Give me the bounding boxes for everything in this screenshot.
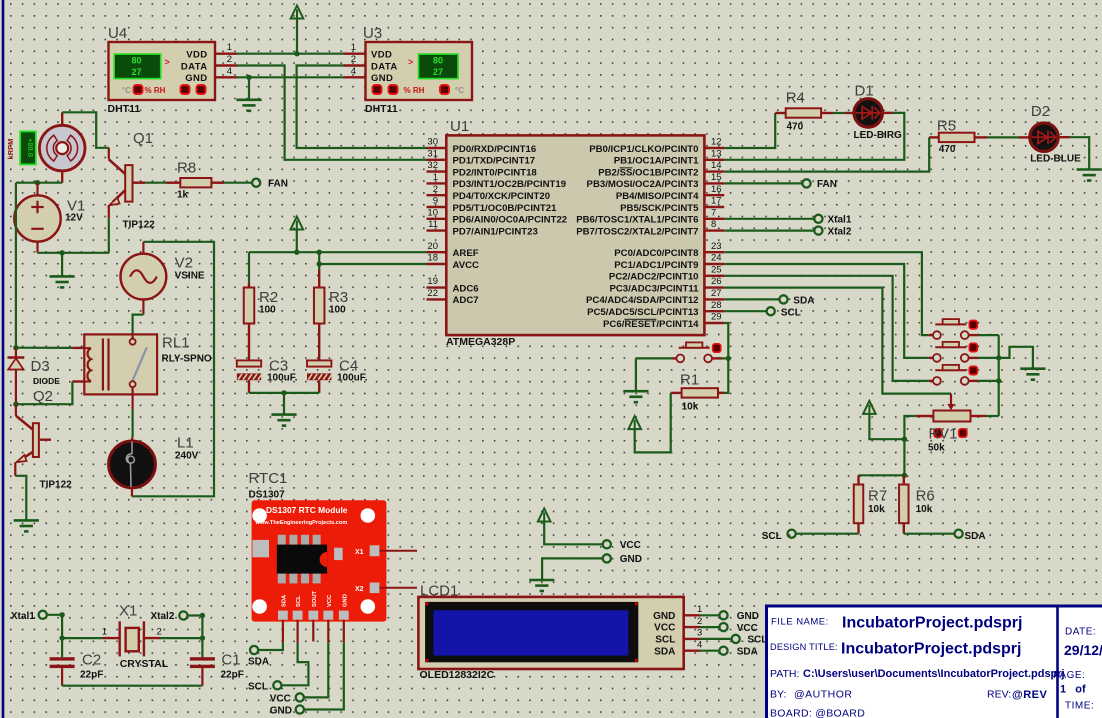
wire button left to ground xyxy=(636,357,672,359)
svg-text:SDA: SDA xyxy=(654,646,675,657)
D1 cathode lead xyxy=(882,112,893,114)
svg-text:SDA: SDA xyxy=(793,296,814,307)
svg-text:240V: 240V xyxy=(175,450,199,461)
wire Xtal2 down to C1 xyxy=(188,616,203,658)
wire LCD SDA xyxy=(700,650,719,652)
svg-text:24: 24 xyxy=(711,253,722,264)
L1 top lead xyxy=(131,437,134,441)
svg-text:U1: U1 xyxy=(450,118,469,135)
svg-text:VDD: VDD xyxy=(186,50,207,61)
svg-text:R4: R4 xyxy=(786,90,805,107)
svg-text:RTC1: RTC1 xyxy=(249,470,288,487)
svg-text:7: 7 xyxy=(711,207,716,218)
junction button2 xyxy=(996,355,1001,360)
svg-text:AREF: AREF xyxy=(453,248,479,259)
svg-text:°C: °C xyxy=(122,86,131,95)
svg-text:4: 4 xyxy=(697,640,702,651)
svg-text:1k: 1k xyxy=(177,190,189,201)
svg-text:VCC: VCC xyxy=(620,540,641,551)
svg-text:470: 470 xyxy=(939,144,956,155)
power terminal (VCC pair) xyxy=(538,509,551,522)
svg-text:DATE:: DATE: xyxy=(1065,627,1096,638)
svg-text:IncubatorProject.pdsprj: IncubatorProject.pdsprj xyxy=(842,615,1022,632)
L1 bottom lead xyxy=(131,488,133,497)
svg-text:OLED12832I2C: OLED12832I2C xyxy=(420,669,495,681)
wire VDD U4-U3 xyxy=(237,53,344,55)
wire PB0 to R4 xyxy=(724,113,775,148)
wire RV1 left down xyxy=(904,416,916,439)
wire down to R6/R7 xyxy=(903,439,905,475)
D2 anode lead xyxy=(1019,136,1030,138)
wire AREF to R2 xyxy=(248,252,250,283)
svg-text:100uF.: 100uF. xyxy=(267,373,298,384)
junction C2/crystal xyxy=(59,635,64,640)
marker (RV1 a) xyxy=(934,429,942,437)
U1 pin 12 PB0 xyxy=(704,147,724,149)
svg-text:1: 1 xyxy=(227,42,232,53)
svg-text:PB0/ICP1/CLKO/PCINT0: PB0/ICP1/CLKO/PCINT0 xyxy=(589,144,698,155)
terminal SDA (chip) xyxy=(779,295,787,303)
power terminal VCC top xyxy=(291,6,304,19)
svg-text:25: 25 xyxy=(711,264,722,275)
terminal FAN (left) xyxy=(252,179,260,187)
svg-text:kRPM: kRPM xyxy=(6,139,15,160)
svg-text:CRYSTAL: CRYSTAL xyxy=(120,658,169,670)
wire AVCC xyxy=(319,263,426,265)
svg-text:PB3/MOSI/OC2A/PCINT3: PB3/MOSI/OC2A/PCINT3 xyxy=(587,179,699,190)
svg-text:PB4/MISO/PCINT4: PB4/MISO/PCINT4 xyxy=(616,191,699,202)
svg-text:PATH:: PATH: xyxy=(770,668,799,680)
svg-text:SCL: SCL xyxy=(747,635,767,646)
svg-text:GND: GND xyxy=(620,554,642,565)
push button 3 xyxy=(929,365,979,385)
junction GND xyxy=(246,75,251,80)
wire V2+ around to L1 xyxy=(132,242,214,496)
terminal Xtal2 (crystal) xyxy=(179,611,187,619)
svg-text:D1: D1 xyxy=(855,83,874,100)
U1 pin 28 PC5 xyxy=(704,310,724,312)
svg-text:10k: 10k xyxy=(916,504,933,515)
svg-text:R5: R5 xyxy=(937,117,956,134)
ground (C3/C4) xyxy=(271,415,296,426)
svg-text:SDA: SDA xyxy=(248,656,269,667)
wire button to reset net xyxy=(718,357,729,359)
svg-text:PB6/TOSC1/XTAL1/PCINT6: PB6/TOSC1/XTAL1/PCINT6 xyxy=(576,215,698,226)
C2 bottom lead xyxy=(61,668,63,686)
lamp L1 240V xyxy=(109,441,156,488)
svg-text:100uF.: 100uF. xyxy=(337,373,368,384)
svg-text:12: 12 xyxy=(711,137,722,148)
wire C2-C1 bottom rail xyxy=(62,685,202,687)
U3 pin 2 DATA xyxy=(344,64,366,66)
wire V1- rail xyxy=(38,252,110,254)
wire D1 to PB1 xyxy=(724,113,904,160)
R5 leads xyxy=(929,136,939,138)
svg-text:3: 3 xyxy=(697,628,702,639)
U1 pin 2 PD4 xyxy=(427,194,447,196)
wire PC2 to button3 xyxy=(724,276,929,381)
title block xyxy=(767,606,1102,718)
svg-text:BY:: BY: xyxy=(770,689,786,701)
U4 pin 1 VDD xyxy=(215,53,237,55)
svg-text:% RH: % RH xyxy=(145,86,166,95)
marker (reset button) xyxy=(713,344,721,352)
U3 pin 1 VDD xyxy=(344,53,366,55)
U4 pin 2 DATA xyxy=(215,64,237,66)
wire C3-C4 to ground xyxy=(249,392,319,394)
sheet border xyxy=(2,0,5,718)
wire LCD VCC xyxy=(700,626,719,628)
U1 pin 25 PC2 xyxy=(704,275,724,277)
svg-text:DS1307: DS1307 xyxy=(249,490,286,501)
wire PC5 to SCL terminal xyxy=(724,310,766,312)
ground (Q2) xyxy=(14,520,39,531)
wire to relay coil+ xyxy=(16,347,73,349)
wire down to ground xyxy=(635,358,637,391)
push button 1 xyxy=(929,319,979,339)
junction relay coil top / D3 xyxy=(13,345,18,350)
svg-text:TIP122: TIP122 xyxy=(123,219,156,230)
svg-text:SDA: SDA xyxy=(281,594,287,607)
svg-text:ADC7: ADC7 xyxy=(453,295,479,306)
wire GND terminal xyxy=(542,558,603,580)
svg-text:D2: D2 xyxy=(1031,103,1050,120)
relay RL1 RLY-SPNO xyxy=(84,334,157,394)
terminal Xtal2 (right) xyxy=(814,227,822,235)
svg-text:C2: C2 xyxy=(82,652,101,669)
svg-text:GND: GND xyxy=(653,611,675,622)
svg-text:1: 1 xyxy=(102,627,107,638)
U1 pin 29 PC6 xyxy=(704,322,724,324)
svg-text:REV:: REV: xyxy=(987,689,1011,701)
terminal SCL (pull-up) xyxy=(788,530,796,538)
motor bottom lead xyxy=(61,171,63,183)
RTC1 DS1307 module board xyxy=(252,500,387,621)
U1 pin 24 PC1 xyxy=(704,263,724,265)
svg-text:27: 27 xyxy=(711,288,722,299)
svg-text:28: 28 xyxy=(711,300,722,311)
svg-text:PD0/RXD/PCINT16: PD0/RXD/PCINT16 xyxy=(453,144,537,155)
svg-text:DHT11: DHT11 xyxy=(365,103,398,115)
diode D3 xyxy=(8,348,25,405)
wire Q1 emitter down xyxy=(108,219,110,253)
wire RTC SDA xyxy=(258,642,283,650)
svg-text:>: > xyxy=(408,57,413,67)
terminal GND xyxy=(603,554,611,562)
wire D2 to ground xyxy=(1070,137,1089,169)
U1 pin 30 PD0 xyxy=(427,147,447,149)
svg-text:R2: R2 xyxy=(259,289,278,306)
svg-text:SCL: SCL xyxy=(296,595,302,607)
svg-text:80: 80 xyxy=(433,55,443,65)
relay coil bottom lead xyxy=(72,380,84,382)
svg-text:22: 22 xyxy=(427,288,438,299)
wire PB6 to Xtal1 xyxy=(724,218,814,220)
wire PC0 to button1 xyxy=(724,252,929,335)
U1 pin 18 AVCC xyxy=(427,263,447,265)
resistor R3 leads xyxy=(318,270,320,288)
svg-text:PC6/RESET/PCINT14: PC6/RESET/PCINT14 xyxy=(603,319,699,330)
U1 pin 13 PB1 xyxy=(704,159,724,161)
svg-text:Q2: Q2 xyxy=(33,388,53,405)
svg-text:RL1: RL1 xyxy=(162,335,190,352)
svg-text:C:\Users\user\Documents\Incuba: C:\Users\user\Documents\IncubatorProject… xyxy=(803,668,1065,680)
svg-text:18: 18 xyxy=(427,253,438,264)
U1 pin 15 PB3 xyxy=(704,182,724,184)
wire PC1 to button2 xyxy=(724,264,929,358)
push button 2 xyxy=(929,342,979,362)
wire relay NO to L1 xyxy=(132,410,134,438)
wire R5 to D2 xyxy=(988,136,1019,138)
U1 pin 32 PD2 xyxy=(427,170,447,172)
wire PB7 to Xtal2 xyxy=(724,230,814,232)
wire crystal pin2 to C1 xyxy=(160,637,202,639)
svg-text:GND: GND xyxy=(371,73,393,84)
resistor R2 xyxy=(244,288,255,324)
svg-text:PD7/AIN1/PCINT23: PD7/AIN1/PCINT23 xyxy=(453,226,538,237)
U1 pin 23 PC0 xyxy=(704,251,724,253)
RV1 leads xyxy=(916,415,934,417)
junction RV1/power xyxy=(902,437,907,442)
terminal SCL (LCD) xyxy=(732,635,740,643)
motor top lead xyxy=(61,112,63,125)
U1 pin 31 PD1 xyxy=(427,159,447,161)
terminal VCC xyxy=(603,540,611,548)
svg-text:U3: U3 xyxy=(363,25,382,42)
wire R6 to SDA terminal xyxy=(904,533,955,535)
wire V2- to relay switch xyxy=(133,315,144,335)
wire power to AREF rail xyxy=(296,230,298,253)
wire U4 DATA to U1 PD1 xyxy=(237,66,427,160)
svg-text:50k: 50k xyxy=(928,443,945,454)
svg-text:20: 20 xyxy=(427,241,438,252)
RTC pin leads xyxy=(282,620,284,642)
svg-text:TIME:: TIME: xyxy=(1065,701,1094,712)
svg-text:ATMEGA328P: ATMEGA328P xyxy=(446,336,515,348)
svg-text:31: 31 xyxy=(427,148,438,159)
svg-text:DHT11: DHT11 xyxy=(108,103,141,115)
wire R4 to D1 xyxy=(833,112,845,114)
junction AREF/R3 xyxy=(317,250,322,255)
svg-text:14: 14 xyxy=(711,160,722,171)
svg-text:PC4/ADC4/SDA/PCINT12: PC4/ADC4/SDA/PCINT12 xyxy=(586,295,699,306)
ground (V1) xyxy=(50,276,75,287)
ground (D2) xyxy=(1077,170,1102,181)
svg-text:16: 16 xyxy=(711,184,722,195)
svg-text:@AUTHOR: @AUTHOR xyxy=(794,689,853,701)
U1 pin 11 PD7 xyxy=(427,229,447,231)
svg-text:PD3/INT1/OC2B/PCINT19: PD3/INT1/OC2B/PCINT19 xyxy=(453,179,567,190)
source V1 12V xyxy=(14,183,60,253)
svg-text:VCC: VCC xyxy=(327,594,333,607)
svg-text:23: 23 xyxy=(711,241,722,252)
svg-text:GND: GND xyxy=(737,611,759,622)
resistor R8 xyxy=(180,178,211,187)
power terminal (RV1) xyxy=(863,401,876,414)
U1 pin 27 PC4 xyxy=(704,298,724,300)
svg-text:FAN: FAN xyxy=(268,178,288,189)
wire R8 to FAN terminal xyxy=(224,182,252,184)
svg-text:X1: X1 xyxy=(119,603,137,620)
junction Xtal2 xyxy=(200,613,205,618)
wire button2 to common xyxy=(978,357,998,359)
wire power to RV1 net xyxy=(869,414,904,439)
svg-text:27: 27 xyxy=(131,67,141,77)
svg-text:ADC6: ADC6 xyxy=(453,283,479,294)
svg-text:VCC: VCC xyxy=(270,694,291,705)
junction ground rail V1 xyxy=(59,250,64,255)
svg-text:Xtal1: Xtal1 xyxy=(11,611,35,622)
svg-text:17: 17 xyxy=(711,196,722,207)
wire AREF rail xyxy=(249,251,427,253)
wire PB2 to R5 xyxy=(724,137,929,171)
wire RTC VCC xyxy=(304,642,328,697)
U1 pin 16 PB4 xyxy=(704,194,724,196)
wire to ground xyxy=(61,253,63,277)
svg-text:29: 29 xyxy=(711,312,722,323)
resistor R6 xyxy=(899,485,909,524)
wire GND U4-U3 xyxy=(237,76,344,78)
wire PB3 to FAN xyxy=(724,182,802,184)
ground (DHT11) xyxy=(236,100,261,111)
svg-text:AVCC: AVCC xyxy=(453,260,480,271)
potentiometer RV1 50k xyxy=(933,411,970,422)
svg-text:1: 1 xyxy=(697,604,702,615)
svg-text:DATA: DATA xyxy=(371,61,398,72)
svg-text:LED-BIRG: LED-BIRG xyxy=(854,130,903,141)
terminal SDA (RTC) xyxy=(250,646,258,654)
svg-text:19: 19 xyxy=(427,276,438,287)
crystal X1 xyxy=(120,621,144,656)
svg-text:VCC: VCC xyxy=(737,623,758,634)
svg-text:100: 100 xyxy=(259,305,276,316)
svg-text:SOUT: SOUT xyxy=(312,590,318,607)
U1 pin 14 PB2 xyxy=(704,170,724,172)
R1 leads xyxy=(671,392,682,394)
svg-text:10k: 10k xyxy=(868,504,885,515)
wire to C2 xyxy=(61,638,63,657)
marker (button 3) xyxy=(969,366,977,374)
svg-text:R1: R1 xyxy=(680,372,699,389)
svg-text:RLY-SPNO: RLY-SPNO xyxy=(162,354,212,365)
junction crystal/C1 xyxy=(200,635,205,640)
wire V1+ down to relay coil xyxy=(15,183,17,348)
C1 bottom lead xyxy=(201,668,203,686)
svg-text:1: 1 xyxy=(433,172,438,183)
resistor R1 xyxy=(682,388,718,397)
power terminal (R1 pull-up) xyxy=(628,416,641,429)
svg-text:PD6/AIN0/OC0A/PCINT22: PD6/AIN0/OC0A/PCINT22 xyxy=(453,215,568,226)
resistor R3 xyxy=(314,288,325,324)
svg-text:VCC: VCC xyxy=(654,623,675,634)
svg-text:PD4/T0/XCK/PCINT20: PD4/T0/XCK/PCINT20 xyxy=(453,191,551,202)
svg-text:R3: R3 xyxy=(329,289,348,306)
svg-text:D3: D3 xyxy=(31,358,50,375)
push button (reset) xyxy=(672,342,722,362)
svg-text:GND: GND xyxy=(342,594,348,607)
svg-text:PC3/ADC3/PCINT11: PC3/ADC3/PCINT11 xyxy=(609,283,699,294)
U1 pin 19 ADC6 xyxy=(427,286,447,288)
svg-text:BOARD: @BOARD: BOARD: @BOARD xyxy=(770,708,865,718)
junction D3/Q2 xyxy=(13,402,18,407)
wire VCC terminal xyxy=(544,522,603,545)
svg-text:29/12/2: 29/12/2 xyxy=(1064,642,1102,658)
R4 leads xyxy=(775,112,786,114)
U1 pin 26 PC3 xyxy=(704,286,724,288)
svg-text:GND: GND xyxy=(270,706,292,717)
D1 anode lead xyxy=(845,112,855,114)
wire V1+/motor rail xyxy=(16,182,62,184)
svg-text:15: 15 xyxy=(711,172,722,183)
wire R7 to SCL terminal xyxy=(796,533,859,535)
wire button1 to common xyxy=(978,334,998,336)
D2 cathode lead xyxy=(1058,136,1070,138)
svg-text:FILE NAME:: FILE NAME: xyxy=(771,617,829,628)
svg-text:X2: X2 xyxy=(355,586,364,593)
terminal SDA (pull-up) xyxy=(955,530,963,538)
wire to crystal pin1 xyxy=(62,637,103,639)
svg-text:Xtal2: Xtal2 xyxy=(151,611,175,622)
svg-text:1: 1 xyxy=(351,42,356,53)
svg-text:80: 80 xyxy=(131,55,141,65)
junction reset button/R1 xyxy=(726,356,731,361)
svg-text:PB1/OC1A/PCINT1: PB1/OC1A/PCINT1 xyxy=(614,156,699,167)
resistor R5 xyxy=(939,133,975,142)
svg-text:1 of: 1 of xyxy=(1060,684,1086,696)
svg-text:V2: V2 xyxy=(175,255,193,272)
wire RV1 right to buttons common xyxy=(986,415,999,417)
svg-text:PC1/ADC1/PCINT9: PC1/ADC1/PCINT9 xyxy=(614,260,698,271)
svg-text:PB5/SCK/PCINT5: PB5/SCK/PCINT5 xyxy=(620,203,699,214)
svg-text:>: > xyxy=(165,57,170,67)
svg-text:2: 2 xyxy=(433,184,438,195)
svg-text:PB2/SS/OC1B/PCINT2: PB2/SS/OC1B/PCINT2 xyxy=(598,167,698,178)
U1 pin 10 PD6 xyxy=(427,218,447,220)
svg-text:SDA: SDA xyxy=(737,646,758,657)
svg-text:4: 4 xyxy=(227,66,232,77)
U1 pin 9 PD5 xyxy=(427,206,447,208)
capacitor C4 xyxy=(307,360,332,380)
U3 pin 4 GND xyxy=(344,76,366,78)
svg-text:SDA: SDA xyxy=(965,531,986,542)
wire Q1 base to R8 xyxy=(145,182,166,184)
R7 leads xyxy=(857,475,859,484)
relay switch bottom lead xyxy=(132,387,134,409)
svg-text:PD5/T1/OC0B/PCINT21: PD5/T1/OC0B/PCINT21 xyxy=(453,203,558,214)
svg-text:DESIGN TITLE:: DESIGN TITLE: xyxy=(770,642,838,652)
U4 pin 4 GND xyxy=(215,76,237,78)
wire power to VDD net xyxy=(296,18,298,54)
wire RTC SCL xyxy=(282,643,309,686)
svg-text:11: 11 xyxy=(428,219,438,230)
svg-text:470: 470 xyxy=(787,121,804,132)
svg-text:FAN: FAN xyxy=(817,179,837,190)
svg-text:°C: °C xyxy=(455,86,464,95)
svg-text:12V: 12V xyxy=(65,213,83,224)
svg-text:2: 2 xyxy=(227,54,232,65)
wire Xtal1 to crystal xyxy=(47,615,62,638)
wire LCD GND xyxy=(700,614,719,616)
svg-text:PC0/ADC0/PCINT8: PC0/ADC0/PCINT8 xyxy=(614,248,699,259)
wire LCD SCL xyxy=(700,638,732,640)
svg-text:SCL: SCL xyxy=(248,682,268,693)
svg-text:26: 26 xyxy=(711,276,722,287)
svg-text:PD2/INT0/PCINT18: PD2/INT0/PCINT18 xyxy=(453,167,538,178)
junction R6/R7 xyxy=(902,473,907,478)
svg-text:8: 8 xyxy=(711,219,716,230)
terminal SCL (chip) xyxy=(767,307,775,315)
svg-text:L1: L1 xyxy=(177,435,194,452)
